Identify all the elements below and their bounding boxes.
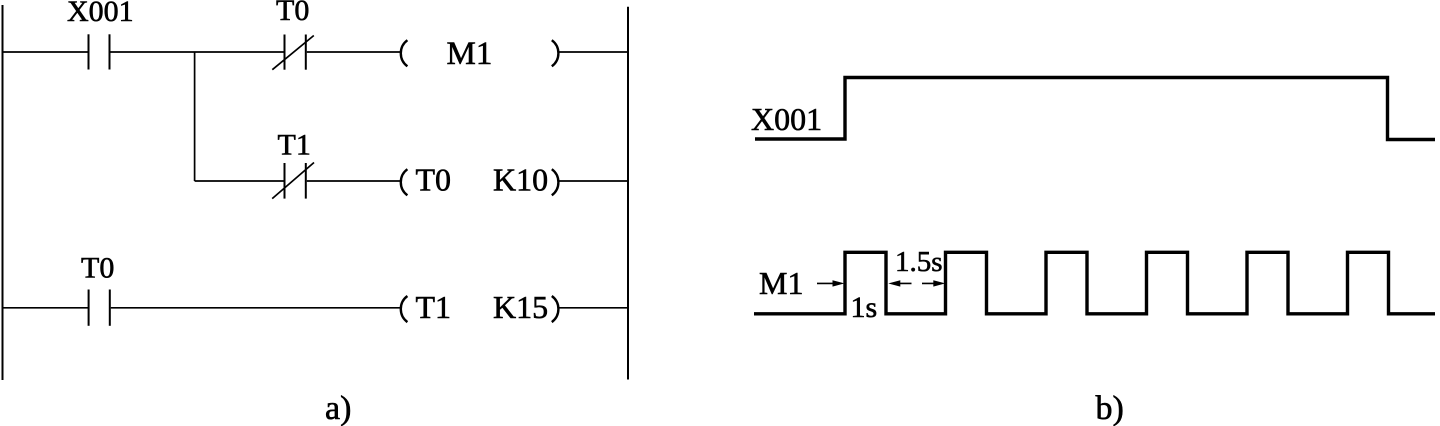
coil T0 K10 (401, 161, 559, 197)
svg-text:M1: M1 (759, 265, 803, 301)
svg-text:b): b) (1096, 390, 1124, 426)
svg-text:M1: M1 (447, 36, 493, 72)
wire rung3 left rail to contact T0 (3, 307, 89, 309)
svg-text:T0: T0 (81, 252, 114, 285)
right power rail (627, 7, 629, 380)
svg-text:X001: X001 (67, 0, 134, 28)
label X001 (67, 0, 134, 28)
svg-text:T1: T1 (278, 128, 311, 161)
dimension arrow left (1.5s) (888, 280, 911, 286)
wire rung3 coil T1 to right rail (560, 307, 629, 309)
label 1.5s (895, 246, 943, 278)
wire rung1 left rail to contact X001 (3, 51, 89, 53)
label T1 rung2 (278, 128, 311, 161)
contact T1 (normally closed) (272, 163, 314, 199)
wire rung2 coil T0 to right rail (560, 180, 629, 182)
svg-text:X001: X001 (751, 101, 822, 137)
svg-text:1s: 1s (851, 291, 878, 324)
waveform X001 (755, 78, 1435, 140)
caption b) (1096, 390, 1124, 426)
coil M1 (401, 36, 559, 72)
waveform M1 (754, 252, 1435, 313)
label T0 rung3 (81, 252, 114, 285)
label M1 waveform (759, 265, 803, 301)
arrow to first rising edge (817, 280, 845, 286)
contact T0 (normally closed) (272, 35, 314, 70)
junction wire rung1 down to rung2 (194, 52, 196, 181)
svg-text:K10: K10 (493, 161, 548, 197)
caption a) (325, 390, 351, 426)
svg-text:K15: K15 (493, 289, 548, 325)
wire rung3 contact T0 to coil T1 (111, 307, 401, 309)
dimension arrow right (1.5s) (922, 280, 945, 286)
wire rung2 junction to contact T1 (195, 180, 285, 182)
svg-text:T0: T0 (276, 0, 309, 27)
contact X001 (normally open) (89, 34, 110, 69)
svg-text:T1: T1 (416, 289, 452, 325)
label T0 rung1 (276, 0, 309, 27)
left power rail (2, 5, 4, 380)
coil T1 K15 (401, 289, 559, 325)
label 1s (851, 291, 878, 324)
wire rung1 contact X001 to contact T0 (111, 51, 285, 53)
svg-text:T0: T0 (416, 161, 452, 197)
svg-text:a): a) (325, 390, 351, 426)
label X001 waveform (751, 101, 822, 137)
wire rung1 contact T0 to coil M1 (307, 51, 401, 53)
wire rung2 contact T1 to coil T0 (307, 180, 401, 182)
svg-text:1.5s: 1.5s (895, 246, 943, 278)
contact T0 rung3 (normally open) (89, 290, 110, 326)
wire rung1 coil M1 to right rail (560, 51, 629, 53)
